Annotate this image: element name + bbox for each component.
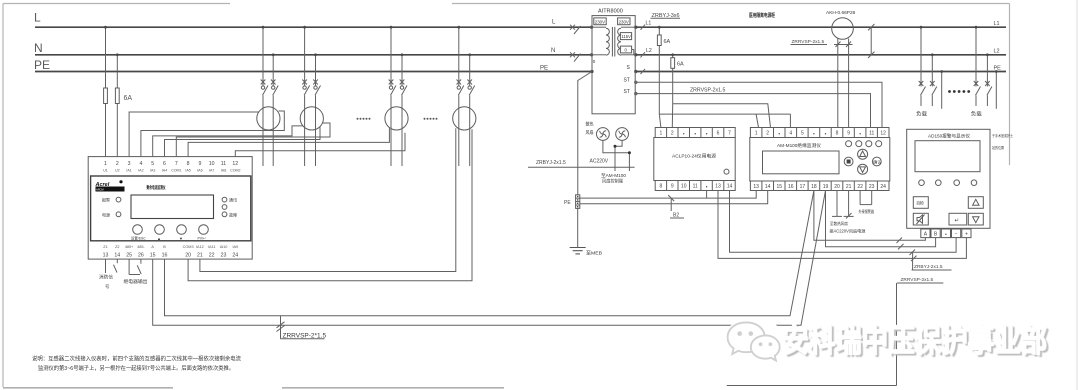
svg-text:−: −: [955, 232, 958, 238]
AD150 button down: [968, 213, 983, 225]
svg-text:10: 10: [209, 161, 215, 167]
ACLP indicator circle: [724, 169, 729, 174]
svg-text:•: •: [825, 132, 827, 138]
svg-text:3: 3: [128, 161, 131, 167]
transformer secondary winding: [618, 28, 621, 55]
AM top terminal labels: [755, 131, 886, 138]
monitor LED right 2: [222, 205, 227, 210]
AC220V feeder wire: [528, 166, 635, 168]
svg-text:通讯: 通讯: [229, 197, 237, 203]
svg-text:15: 15: [150, 253, 156, 259]
wire U1 from bus L to monitor terminal 1: [105, 27, 107, 88]
svg-text:自检: 自检: [916, 201, 924, 206]
svg-text:18: 18: [811, 184, 817, 190]
svg-text:4: 4: [139, 161, 142, 167]
ACLP top terminal labels: [660, 131, 732, 138]
cable label leader ZRBYJ-2x1.5: [912, 252, 914, 270]
svg-text:B: B: [163, 245, 166, 249]
svg-text:21: 21: [197, 253, 203, 259]
outgoing cable down to frame: [896, 283, 898, 386]
svg-text:22: 22: [857, 184, 863, 190]
ellipsis dots between CT3 and CT4: [424, 118, 438, 120]
svg-text:PV/↵: PV/↵: [198, 237, 206, 241]
fan wiring junction dots: [614, 145, 617, 148]
svg-text:说明：互感器二次线接入仪表时，前四个支路的互感器的二次线其中: 说明：互感器二次线接入仪表时，前四个支路的互感器的二次线其中一根依次接剩余电流: [32, 355, 241, 363]
svg-text:COM1: COM1: [171, 169, 181, 173]
svg-text:L1: L1: [646, 21, 652, 27]
svg-text:Z2: Z2: [115, 245, 119, 249]
svg-text:•: •: [706, 185, 708, 191]
svg-text:PE: PE: [994, 66, 1002, 72]
svg-text:24: 24: [232, 253, 238, 259]
svg-text:20: 20: [185, 253, 191, 259]
monitor button 4: [199, 225, 209, 235]
ellipsis dots between CT2 and CT3: [357, 118, 371, 120]
svg-text:IA6: IA6: [197, 169, 202, 173]
breaker QF2a: [302, 80, 309, 96]
fan wiring: [603, 140, 630, 171]
svg-text:A: A: [151, 245, 154, 249]
svg-text:IA2: IA2: [138, 169, 143, 173]
AD150 terminal cells A B dot minus plus: [921, 229, 971, 238]
ACLP main box: [654, 138, 735, 181]
monitor Acrel logo: [95, 182, 125, 192]
svg-text:8: 8: [660, 184, 663, 190]
svg-text:23: 23: [221, 253, 227, 259]
AD150 LCD: [915, 141, 980, 172]
svg-text:U1: U1: [103, 169, 108, 173]
svg-text:•: •: [694, 132, 696, 138]
cable crossing ticks near AD150: [897, 238, 917, 262]
load group 2 PE drop: [995, 72, 997, 109]
current transformer CT1 ring: [257, 107, 280, 130]
monitor LCD display: [131, 195, 214, 219]
svg-text:N: N: [34, 41, 43, 55]
watermark text 安科瑞中压保护事业部: [0, 0, 1, 1]
earth conductor to ground: [577, 208, 579, 247]
output line PE-S: [635, 71, 1006, 73]
svg-text:ZRBYJ-2x1.5: ZRBYJ-2x1.5: [536, 160, 566, 166]
breaker QF1b: [271, 80, 278, 96]
svg-text:负载: 负载: [971, 111, 982, 118]
AM main box: [750, 138, 890, 182]
svg-text:Z1: Z1: [103, 245, 107, 249]
svg-text:号: 号: [105, 284, 110, 290]
fire signal input contact on terminals 13 14: [106, 259, 118, 273]
AKH secondary cable marker: [834, 42, 853, 48]
svg-text:B: B: [934, 232, 938, 238]
svg-text:IA4: IA4: [162, 169, 167, 173]
svg-text:6A: 6A: [677, 62, 684, 68]
branch circuit 4 N drop: [469, 55, 471, 166]
monitor LED right 3: [222, 212, 227, 217]
svg-text:IA1: IA1: [126, 169, 131, 173]
svg-text:2: 2: [671, 131, 674, 137]
svg-text:14: 14: [114, 253, 120, 259]
svg-text:S: S: [627, 65, 631, 71]
svg-text:230V: 230V: [595, 19, 605, 24]
svg-text:AM-M100绝缘监测仪: AM-M100绝缘监测仪: [777, 142, 821, 149]
svg-text:于手术室或护士: 于手术室或护士: [992, 133, 1014, 138]
CT2 secondary wire to terminal 5: [153, 126, 303, 157]
current transformer CT3 ring: [385, 107, 408, 130]
fuse FU4 6A: [671, 58, 675, 69]
svg-text:L2: L2: [994, 49, 1000, 55]
svg-text:ZRRVSP-2*1.5: ZRRVSP-2*1.5: [283, 332, 327, 339]
svg-text:负载: 负载: [916, 111, 927, 118]
transformer terminal circles: [590, 26, 637, 95]
svg-text:AITR8000: AITR8000: [598, 9, 623, 15]
transformer tap 115V label box: [620, 33, 631, 40]
outer page edge line right: [1076, 0, 1078, 390]
svg-text:•: •: [706, 132, 708, 138]
svg-text:散热: 散热: [586, 121, 594, 128]
transformer internal connections: [592, 27, 635, 55]
svg-text:11: 11: [693, 184, 698, 190]
monitor LED left 1: [116, 197, 121, 202]
svg-text:确认: 确认: [873, 159, 881, 165]
svg-text:1: 1: [755, 131, 758, 137]
transformer primary winding: [606, 28, 609, 55]
alarm display AD150 box: [907, 129, 990, 228]
svg-text:消防信: 消防信: [99, 274, 114, 281]
svg-text:8: 8: [187, 161, 190, 167]
svg-text:至MEB: 至MEB: [586, 251, 602, 256]
svg-text:报警: 报警: [102, 197, 110, 203]
svg-text:•: •: [859, 132, 861, 138]
svg-text:0: 0: [593, 59, 596, 64]
border frame right: [1009, 4, 1011, 166]
transformer primary 230V label box: [594, 18, 606, 25]
svg-text:ST: ST: [624, 78, 630, 84]
PE junction dot at transformer: [590, 70, 593, 73]
ground symbol: [570, 248, 586, 254]
svg-text:25: 25: [126, 253, 132, 259]
monitor bottom terminal labels: [103, 245, 238, 249]
svg-text:7: 7: [728, 131, 731, 137]
svg-text:监测仪的第3~6号端子上，另一根拧在一起接到7号公共端上。后: 监测仪的第3~6号端子上，另一根拧在一起接到7号公共端上。后面支路的依次类推。: [38, 364, 234, 372]
wire U2 from bus N to monitor terminal 2: [116, 55, 118, 88]
svg-text:0: 0: [625, 48, 628, 53]
border frame left: [2, 4, 4, 388]
svg-text:7: 7: [175, 161, 178, 167]
current transformer CT2 ring: [300, 107, 323, 130]
tick marks after transformer: [641, 25, 646, 75]
svg-text:风扇: 风扇: [586, 129, 594, 136]
svg-text:ZRRVSP-2x1.5: ZRRVSP-2x1.5: [690, 88, 725, 94]
output line L1: [635, 26, 1006, 28]
load group 2 L1 drop: [974, 27, 981, 106]
CT3 secondary wire to terminal 8: [188, 128, 389, 156]
svg-text:9: 9: [198, 161, 201, 167]
svg-text:13: 13: [753, 184, 759, 190]
svg-text:24: 24: [880, 184, 886, 190]
PE drop diagonal to PE terminal bar: [578, 72, 592, 195]
svg-text:IA8: IA8: [221, 169, 226, 173]
monitor front panel box: [91, 176, 251, 241]
AM button enter: [872, 157, 881, 166]
branch circuit 4 L drop: [458, 27, 460, 166]
monitor top terminal labels U1..COM2: [103, 169, 240, 173]
border frame bottom segment 1: [3, 387, 173, 389]
monitor button 2: [155, 225, 165, 235]
svg-text:COM2: COM2: [230, 169, 240, 173]
fuse FU1 6A: [104, 88, 108, 104]
svg-text:9: 9: [671, 184, 674, 190]
svg-text:ST: ST: [624, 89, 630, 95]
CT3 secondary wire to terminal 12: [235, 133, 405, 157]
RS485 wire AM19 to AD150 B: [826, 191, 936, 247]
power supply ACLP10-24 top terminal strip: [655, 128, 735, 138]
svg-text:L1: L1: [994, 21, 1000, 27]
svg-text:继电器输出: 继电器输出: [124, 278, 148, 285]
svg-text:U2: U2: [115, 169, 120, 173]
breaker QF2b: [313, 80, 320, 96]
svg-text:+: +: [965, 232, 968, 238]
AD150 button up: [968, 197, 983, 209]
AM bottom terminal labels: [753, 184, 886, 190]
AD150 LED circles: [919, 180, 977, 186]
monitor button 3: [177, 225, 187, 235]
svg-text:IA3: IA3: [150, 169, 155, 173]
branch circuit 2 N drop: [315, 55, 317, 166]
PE wire to ACLP and AM terminal 13: [580, 191, 756, 199]
ACLP bottom terminal labels: [660, 184, 733, 191]
ACLP bottom terminal strip: [655, 181, 735, 191]
monitor top terminal numbers 1-12: [104, 161, 238, 167]
svg-text:N: N: [551, 48, 555, 54]
svg-text:•: •: [778, 132, 780, 138]
svg-text:•: •: [683, 132, 685, 138]
load group 2 L2 drop: [985, 55, 992, 106]
isolation transformer box: [592, 16, 635, 114]
PE terminal bar: [576, 195, 580, 209]
AM alarm wires 22 23: [860, 191, 872, 205]
svg-text:L: L: [34, 11, 41, 25]
svg-text:ZRBYJ-2x1.5: ZRBYJ-2x1.5: [914, 264, 943, 270]
feed wire L2 to ACLP terminal 2 and AM terminal 2: [673, 104, 771, 128]
AD150 button mute: [913, 213, 928, 225]
branch circuit 1 N drop: [272, 55, 274, 166]
bottom horizontal line at watermark box: [727, 385, 897, 387]
svg-text:外接报警器: 外接报警器: [859, 208, 875, 215]
transformer input switch on L: [570, 25, 581, 34]
border frame bottom segment 2: [282, 387, 504, 389]
svg-text:20: 20: [834, 184, 840, 190]
RS485 wire A from terminal 16 to AM-M100: [165, 191, 814, 316]
svg-text:4: 4: [789, 131, 792, 137]
svg-text:至散热风扇: 至散热风扇: [830, 220, 848, 227]
CT1 secondary wire to terminal 3: [129, 112, 258, 157]
CT2 secondary wire to terminal 6: [165, 127, 321, 157]
transformer secondary 230V label box: [618, 18, 630, 25]
svg-text:16: 16: [788, 184, 794, 190]
AM LCD display: [763, 151, 840, 174]
fuse FU2 6A: [115, 88, 119, 104]
svg-text:ARCM: ARCM: [96, 188, 104, 192]
svg-text:IA12: IA12: [196, 245, 204, 249]
monitor bottom terminal numbers: [103, 253, 239, 259]
svg-text:15: 15: [777, 184, 783, 190]
border frame top segment 1: [3, 3, 230, 5]
transformer core: [611, 27, 613, 57]
monitor LED right 1: [222, 197, 227, 202]
AD150 button self test: [913, 197, 928, 209]
RS485 wire AM18 to AD150 A: [814, 191, 926, 241]
monitor button 1: [133, 225, 143, 235]
svg-text:230V: 230V: [619, 19, 629, 24]
svg-text:IA9: IA9: [232, 245, 238, 249]
svg-text:12: 12: [880, 131, 886, 137]
svg-text:2: 2: [766, 131, 769, 137]
load group 1 L1 drop: [919, 27, 926, 106]
DC24V wire ACLP14 to AD150 minus: [730, 191, 957, 253]
svg-text:17: 17: [800, 184, 806, 190]
AM button down: [858, 164, 868, 174]
svg-text:剩余电流监测仪: 剩余电流监测仪: [147, 184, 166, 191]
PE wire to AM terminal 14: [580, 191, 768, 204]
ST wire 1 to AM-M100 terminal 12: [635, 82, 882, 127]
svg-text:6: 6: [163, 161, 166, 167]
svg-text:485+: 485+: [125, 245, 134, 249]
svg-text:PE: PE: [540, 66, 548, 72]
svg-text:PE: PE: [564, 200, 571, 206]
fuse FU3 6A: [657, 35, 661, 46]
svg-text:13: 13: [103, 253, 109, 259]
breaker QF4b: [467, 80, 474, 96]
svg-text:6A: 6A: [124, 95, 133, 102]
svg-text:COM3: COM3: [183, 245, 194, 249]
cable continuation marks on L1 L2: [868, 24, 875, 58]
svg-text:•: •: [813, 132, 815, 138]
svg-text:风扇控制端: 风扇控制端: [602, 178, 624, 185]
svg-text:▼: ▼: [179, 236, 183, 241]
branch circuit 3 N drop: [401, 55, 403, 166]
svg-text:•: •: [945, 232, 947, 238]
svg-text:IA11: IA11: [208, 245, 216, 249]
svg-text:6A: 6A: [664, 39, 671, 45]
svg-text:安科瑞中压保护事业部: 安科瑞中压保护事业部: [782, 322, 1047, 358]
current transformer AKH ring: [832, 18, 854, 40]
cooling fan M2: [616, 128, 629, 141]
breaker QF4a: [457, 80, 464, 96]
insulation monitor AM-M100 top terminal strip: [750, 128, 889, 138]
transformer tap 0 label box: [620, 46, 631, 53]
cable label leader ZRRVSP-2*1.5: [277, 316, 325, 339]
svg-text:6: 6: [717, 131, 720, 137]
AKH secondary pair to AM terminals 8 9: [838, 38, 849, 128]
monitor LED left 2: [116, 212, 121, 217]
branch circuit 2 L drop: [304, 27, 306, 166]
ST wire 2 to AM-M100 terminal 11: [635, 94, 870, 128]
AD150 button enter: [949, 213, 967, 225]
svg-text:A: A: [924, 232, 928, 238]
svg-text:5: 5: [801, 131, 804, 137]
breaker QF3b: [400, 80, 407, 96]
svg-text:26: 26: [138, 253, 144, 259]
AM button menu: [844, 157, 853, 166]
svg-text:AD150报警与显示仪: AD150报警与显示仪: [928, 133, 970, 140]
svg-text:IA10: IA10: [220, 245, 228, 249]
watermark wechat icon: [722, 315, 792, 375]
svg-text:接AC220V风扇电源: 接AC220V风扇电源: [829, 228, 866, 235]
svg-text:2: 2: [116, 161, 119, 167]
fuse drop L1 wire: [658, 27, 660, 114]
AM LED circles: [846, 141, 882, 147]
svg-text:▲: ▲: [157, 236, 161, 241]
svg-text:23: 23: [869, 184, 875, 190]
svg-text:至AM-M100: 至AM-M100: [601, 173, 627, 178]
cooling fan M1: [597, 128, 610, 141]
svg-text:13: 13: [715, 184, 721, 190]
svg-text:故障: 故障: [229, 211, 237, 217]
monitor logo dot: [119, 180, 122, 183]
output line L2: [635, 54, 1006, 56]
svg-text:21: 21: [846, 184, 852, 190]
svg-text:14: 14: [765, 184, 771, 190]
CT4 secondary wire to terminal 21: [200, 128, 456, 271]
ACLP PE stub: [706, 191, 708, 199]
DC24V wire ACLP13 to AD150 plus: [718, 191, 966, 259]
svg-text:设置/ESC: 设置/ESC: [131, 236, 146, 241]
transformer input switch on N: [570, 52, 581, 61]
svg-text:12: 12: [232, 161, 238, 167]
CT2 secondary wire to terminal 7: [176, 123, 330, 157]
bus L: [35, 26, 592, 28]
ellipsis dots between loads: [948, 90, 970, 93]
bus N: [35, 54, 592, 56]
svg-text:ZRRVSP-2x1.5: ZRRVSP-2x1.5: [901, 277, 934, 283]
fuse drop L2 wire: [672, 55, 674, 104]
breaker QF3a: [389, 80, 396, 96]
CT1 secondary wire to terminal 4: [141, 111, 284, 157]
svg-text:14: 14: [727, 184, 733, 190]
svg-text:AC220V: AC220V: [590, 159, 609, 165]
RS485 wire B from terminal 15 to AM-M100: [153, 191, 826, 326]
load group 1 PE drop: [941, 72, 943, 109]
AM bottom terminal strip: [750, 181, 889, 191]
svg-text:L2: L2: [646, 48, 652, 54]
AM fan control wires 20 21: [832, 191, 854, 219]
svg-text:8: 8: [836, 131, 839, 137]
B2 reference point marker: [668, 195, 674, 211]
monitor residual current monitor outer box: [88, 157, 252, 260]
branch circuit 3 L drop: [390, 27, 392, 166]
svg-text:ACLP10-24仪用电源: ACLP10-24仪用电源: [672, 153, 716, 160]
svg-text:AKH-0.66P26: AKH-0.66P26: [826, 10, 856, 16]
svg-text:IA7: IA7: [209, 169, 214, 173]
svg-text:9: 9: [847, 131, 850, 137]
svg-text:16: 16: [162, 253, 168, 259]
svg-text:485-: 485-: [137, 245, 145, 249]
feed wire L1 to ACLP terminal 1 and AM terminal 1: [659, 113, 790, 115]
svg-text:医用隔离电源柜: 医用隔离电源柜: [749, 12, 775, 19]
svg-text:11: 11: [869, 131, 874, 137]
svg-text:5: 5: [151, 161, 154, 167]
svg-text:1: 1: [104, 161, 107, 167]
breaker QF1a: [261, 80, 268, 96]
svg-text:1: 1: [660, 131, 663, 137]
svg-text:10: 10: [681, 184, 687, 190]
relay output contact on terminals 25 26: [129, 259, 141, 274]
svg-text:22: 22: [209, 253, 215, 259]
svg-text:115V: 115V: [621, 34, 631, 39]
svg-text:PE: PE: [34, 58, 50, 72]
svg-text:IA5: IA5: [185, 169, 190, 173]
svg-text:11: 11: [221, 161, 226, 167]
bus PE: [35, 71, 592, 73]
AM button up: [858, 149, 868, 159]
